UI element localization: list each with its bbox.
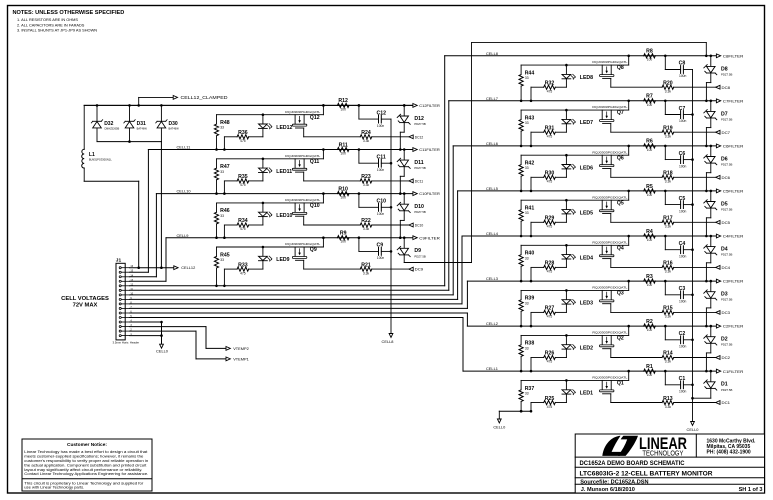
svg-text:SH 1 of 3: SH 1 of 3	[739, 487, 763, 493]
svg-text:R36: R36	[238, 130, 248, 136]
svg-text:C3: C3	[679, 286, 686, 292]
svg-text:R9: R9	[340, 231, 347, 237]
svg-text:BAT46W: BAT46W	[137, 127, 148, 131]
svg-text:100n: 100n	[679, 390, 687, 394]
svg-text:R31: R31	[545, 125, 555, 131]
resistor R11 100	[337, 142, 349, 155]
resistor R24 3.3k	[304, 130, 409, 143]
wire CELL12_CLAMPED rail	[84, 104, 413, 106]
svg-text:100: 100	[647, 373, 653, 377]
svg-text:D1: D1	[721, 382, 728, 388]
node CELL10 bus	[156, 189, 413, 194]
svg-text:3.3k: 3.3k	[363, 227, 370, 231]
svg-text:Q3: Q3	[617, 290, 624, 296]
node CELL9 bus	[166, 233, 413, 238]
wire zener D2 to next filter node	[705, 344, 711, 373]
capacitor C10 100n	[358, 192, 391, 216]
svg-text:This circuit is proprietary to: This circuit is proprietary to Linear Te…	[24, 481, 144, 485]
node CELL8 down flag	[382, 334, 394, 344]
svg-text:LED4: LED4	[580, 255, 593, 261]
wire pin2 to VTEMP1	[130, 331, 249, 362]
node DC8 flag	[716, 85, 730, 90]
zener D6 PDZ7.5B	[704, 145, 733, 167]
svg-text:R30: R30	[545, 171, 555, 177]
wire pin14 to CELL10 bus	[130, 194, 157, 277]
resistor R31 475	[530, 125, 567, 147]
wire source line row 1	[521, 370, 630, 381]
svg-text:RQJ0303PGDGQATL: RQJ0303PGDGQATL	[285, 110, 321, 114]
resistor R19 3.3k	[611, 125, 716, 138]
svg-text:PDZ7.5B: PDZ7.5B	[414, 254, 425, 258]
svg-text:RQJ0303PGDGQATL: RQJ0303PGDGQATL	[285, 154, 321, 158]
capacitor C4 100n	[664, 235, 693, 259]
svg-text:D6: D6	[721, 156, 728, 162]
wire source line row 4	[521, 235, 630, 246]
resistor R14 3.3k	[611, 351, 716, 364]
node C6FILTER flag	[716, 144, 743, 149]
resistor R21 3.3k	[304, 262, 409, 275]
svg-text:CELL VOLTAGES: CELL VOLTAGES	[61, 296, 109, 302]
transistor Q9 RQJ0303PGDGQATL	[285, 242, 321, 269]
svg-text:DC12: DC12	[415, 135, 424, 139]
resistor R18 3.3k	[611, 171, 716, 184]
svg-text:CELL3: CELL3	[486, 276, 498, 281]
svg-text:100n: 100n	[377, 256, 385, 260]
svg-text:C10FILTER: C10FILTER	[419, 192, 440, 196]
svg-text:100: 100	[340, 240, 346, 244]
capacitor C6 100n	[664, 145, 693, 169]
svg-text:C1FILTER: C1FILTER	[723, 370, 744, 374]
svg-text:475: 475	[547, 270, 553, 274]
resistor R22 3.3k	[304, 218, 409, 231]
LED LED10	[259, 202, 293, 225]
svg-text:R26: R26	[545, 351, 555, 357]
title block address	[707, 438, 757, 455]
resistor R43 33	[519, 110, 534, 147]
transistor Q6 RQJ0303PGDGQATL	[592, 150, 628, 177]
svg-text:33: 33	[220, 170, 224, 174]
LED LED2	[562, 334, 593, 357]
svg-text:VTEMP1: VTEMP1	[233, 357, 249, 362]
svg-text:PDZ7.5B: PDZ7.5B	[721, 253, 732, 257]
svg-text:C6FILTER: C6FILTER	[723, 145, 744, 149]
svg-text:Sourcefile: DC1652A.DSN: Sourcefile: DC1652A.DSN	[580, 479, 648, 485]
svg-text:C5: C5	[679, 196, 686, 202]
transistor Q5 RQJ0303PGDGQATL	[592, 195, 628, 222]
svg-text:100n: 100n	[679, 299, 687, 303]
svg-text:DC4: DC4	[722, 266, 731, 270]
node C10FILTER flag	[413, 192, 440, 197]
capacitor C3 100n	[664, 280, 693, 304]
svg-text:D3: D3	[721, 292, 728, 298]
zener D5 PDZ7.5B	[704, 190, 733, 212]
node DC3 flag	[716, 311, 730, 316]
svg-text:C8FILTER: C8FILTER	[723, 54, 744, 58]
svg-text:475: 475	[240, 139, 246, 143]
svg-text:J1: J1	[116, 258, 122, 264]
svg-text:D4: D4	[721, 247, 728, 253]
svg-text:3.3k: 3.3k	[665, 360, 672, 364]
resistor R45 33	[214, 247, 229, 287]
wire zener D5 to next filter node	[705, 208, 711, 237]
wire pin1 CELL0 flag	[130, 322, 169, 354]
transistor Q1 RQJ0303PGDGQATL	[592, 376, 628, 403]
svg-text:DC7: DC7	[722, 131, 731, 135]
wire source line row 2	[521, 325, 630, 336]
svg-text:CELL6: CELL6	[486, 141, 498, 146]
svg-text:CELL4: CELL4	[486, 231, 499, 236]
wire D30 bottom to CELL12 net	[160, 142, 163, 269]
inductor L1	[82, 105, 113, 181]
zener D12 PDZ7.5B	[397, 104, 426, 126]
resistor R32 475	[530, 80, 567, 102]
LED LED6	[562, 154, 593, 177]
svg-text:LED8: LED8	[580, 75, 593, 81]
svg-text:100n: 100n	[377, 168, 385, 172]
resistor R25 475	[530, 396, 567, 413]
svg-text:R17: R17	[663, 216, 673, 222]
svg-text:33: 33	[525, 346, 529, 350]
svg-text:100n: 100n	[377, 212, 385, 216]
svg-text:100: 100	[647, 103, 653, 107]
svg-text:100: 100	[340, 107, 346, 111]
svg-text:3.3k: 3.3k	[363, 139, 370, 143]
node DC10 flag	[409, 223, 423, 228]
resistor R1 100	[644, 364, 656, 377]
svg-text:RQJ0303PGDGQATL: RQJ0303PGDGQATL	[592, 150, 628, 154]
resistor R38 33	[519, 335, 534, 372]
capacitor C2 100n	[664, 325, 693, 349]
node CELL6 bus	[453, 141, 716, 146]
svg-text:D30: D30	[169, 121, 178, 127]
transistor Q3 RQJ0303PGDGQATL	[592, 285, 628, 312]
svg-text:R24: R24	[361, 130, 371, 136]
svg-text:33: 33	[525, 76, 529, 80]
svg-text:3.3k: 3.3k	[665, 270, 672, 274]
wire pin16 CELL12 net	[130, 265, 196, 270]
svg-text:100n: 100n	[679, 345, 687, 349]
wire zener D12 to next filter node	[399, 123, 404, 151]
node C5FILTER flag	[716, 189, 743, 194]
title block sourcefile	[580, 479, 648, 485]
svg-text:475: 475	[547, 360, 553, 364]
svg-text:C10: C10	[377, 199, 387, 205]
svg-text:D2: D2	[721, 337, 728, 343]
svg-text:TECHNOLOGY: TECHNOLOGY	[642, 448, 683, 457]
svg-text:R28: R28	[545, 261, 555, 267]
svg-text:D12: D12	[414, 116, 424, 122]
svg-text:CELL11: CELL11	[177, 145, 191, 150]
resistor R47 33	[214, 159, 229, 195]
svg-text:RQJ0303PGDGQATL: RQJ0303PGDGQATL	[592, 376, 628, 380]
svg-text:R33: R33	[238, 262, 248, 268]
svg-text:D8: D8	[721, 66, 728, 72]
svg-text:DC11: DC11	[415, 180, 424, 184]
svg-text:CELL12: CELL12	[181, 265, 195, 270]
wire zener D1 to CELL0 rail	[691, 388, 711, 399]
node junctions on clamped rail	[96, 104, 406, 107]
LED LED9	[259, 246, 290, 269]
zener D4 PDZ7.5B	[704, 235, 733, 257]
svg-text:DC6: DC6	[722, 176, 731, 180]
svg-text:R29: R29	[545, 216, 555, 222]
svg-text:R3: R3	[646, 274, 653, 280]
connector J1	[113, 258, 140, 345]
wire CELL0 cap rail	[691, 70, 694, 422]
wire source line row 11	[217, 148, 325, 159]
svg-text:LED11: LED11	[276, 169, 292, 175]
svg-text:R27: R27	[545, 306, 555, 312]
svg-text:Q10: Q10	[310, 203, 320, 209]
svg-text:C11FILTER: C11FILTER	[419, 148, 440, 152]
zener D9 PDZ7.5B	[397, 236, 426, 258]
wire pin12 CELL8 long bus	[130, 56, 445, 286]
svg-text:D5: D5	[721, 201, 728, 207]
svg-text:PDZ7.5B: PDZ7.5B	[414, 166, 425, 170]
svg-text:NOTES: UNLESS OTHERWISE SPECI: NOTES: UNLESS OTHERWISE SPECIFIED	[13, 10, 125, 16]
svg-text:LED5: LED5	[580, 210, 593, 216]
resistor R7 100	[644, 94, 656, 107]
svg-text:RQJ0303PGDGQATL: RQJ0303PGDGQATL	[592, 195, 628, 199]
resistor R41 33	[519, 200, 534, 237]
title block author date	[581, 487, 763, 493]
wire zener D7 to next filter node	[705, 118, 711, 147]
node DC4 flag	[716, 266, 730, 271]
resistor R3 100	[644, 274, 656, 287]
wire source line row 6	[521, 145, 630, 156]
svg-text:Q5: Q5	[617, 200, 624, 206]
svg-text:DC10: DC10	[415, 224, 424, 228]
resistor R10 100	[337, 186, 349, 199]
wire CELL8 cap rail	[390, 119, 393, 333]
svg-text:LED3: LED3	[580, 300, 593, 306]
node C1FILTER flag	[716, 369, 743, 374]
node CELL7 bus	[449, 96, 717, 101]
svg-text:33: 33	[220, 214, 224, 218]
svg-text:R5: R5	[646, 184, 653, 190]
wire diode bottom rail	[97, 140, 161, 143]
svg-text:DC1652A DEMO BOARD SCHEMATIC: DC1652A DEMO BOARD SCHEMATIC	[580, 460, 685, 467]
svg-text:BAT46W: BAT46W	[169, 127, 180, 131]
node CELL0 down flag right	[687, 422, 700, 433]
wire pin13 to CELL9 bus	[130, 238, 166, 282]
svg-text:RQJ0303PGDGQATL: RQJ0303PGDGQATL	[285, 198, 321, 202]
svg-text:D9: D9	[414, 248, 421, 254]
transistor Q2 RQJ0303PGDGQATL	[592, 331, 628, 358]
wire pin10 to CELL6	[130, 146, 454, 295]
svg-text:R23: R23	[361, 174, 371, 180]
svg-text:R13: R13	[663, 396, 673, 402]
diode D31	[124, 105, 148, 141]
node DC6 flag	[716, 175, 730, 180]
svg-text:475: 475	[240, 271, 246, 275]
svg-text:use with Linear Technology par: use with Linear Technology parts.	[24, 486, 84, 490]
svg-text:LED9: LED9	[276, 257, 289, 263]
svg-text:33: 33	[525, 301, 529, 305]
svg-text:DC3: DC3	[722, 311, 731, 315]
svg-text:33: 33	[220, 126, 224, 130]
svg-text:C4FILTER: C4FILTER	[723, 235, 744, 239]
wire pin15 to CELL11 bus	[130, 150, 149, 273]
svg-text:C1: C1	[679, 376, 686, 382]
node C12FILTER flag	[413, 104, 440, 109]
wire zener D11 to next filter node	[399, 167, 404, 195]
svg-text:DC2: DC2	[722, 356, 731, 360]
node CELL5 bus	[458, 186, 717, 191]
wire L1 bottom to pin16	[84, 181, 140, 269]
wire pin5 to CELL1	[130, 318, 463, 372]
svg-text:CELL1: CELL1	[486, 366, 498, 371]
svg-text:PDZ7.5B: PDZ7.5B	[721, 72, 732, 76]
transistor Q11 RQJ0303PGDGQATL	[285, 154, 321, 181]
svg-text:C3FILTER: C3FILTER	[723, 280, 744, 284]
resistor R46 33	[214, 203, 229, 239]
node C4FILTER flag	[716, 234, 743, 239]
svg-text:CELL0: CELL0	[156, 349, 169, 354]
svg-text:PDZ7.5B: PDZ7.5B	[721, 388, 732, 392]
svg-text:C5FILTER: C5FILTER	[723, 190, 744, 194]
svg-text:PDZ7.5B: PDZ7.5B	[721, 163, 732, 167]
resistor R28 475	[530, 261, 567, 283]
wire pin7 to CELL3	[130, 281, 468, 308]
wire pin9 to CELL5	[130, 191, 458, 300]
svg-text:RQJ0303PGDGQATL: RQJ0303PGDGQATL	[592, 60, 628, 64]
svg-text:100n: 100n	[679, 119, 687, 123]
svg-text:Q8: Q8	[617, 65, 624, 71]
transistor Q12 RQJ0303PGDGQATL	[285, 110, 321, 137]
LED LED11	[259, 158, 293, 181]
wire source line row 9	[217, 236, 325, 247]
zener D8 PDZ7.5B	[704, 55, 733, 77]
node C3FILTER flag	[716, 279, 743, 284]
svg-text:LTC6803IG-2 12-CELL BATTERY M: LTC6803IG-2 12-CELL BATTERY MONITOR	[580, 470, 713, 477]
svg-text:LED6: LED6	[580, 165, 593, 171]
svg-text:33: 33	[525, 166, 529, 170]
svg-text:R8: R8	[646, 49, 653, 55]
node C9FILTER flag	[413, 236, 440, 241]
svg-text:100n: 100n	[377, 124, 385, 128]
svg-text:Q7: Q7	[617, 110, 624, 116]
svg-text:D32: D32	[104, 121, 113, 127]
wire zener D8 to next filter node	[705, 73, 711, 102]
svg-text:LED7: LED7	[580, 120, 593, 126]
svg-text:VTEMP2: VTEMP2	[233, 346, 249, 351]
svg-text:Q11: Q11	[310, 159, 320, 165]
svg-text:3.3k: 3.3k	[665, 180, 672, 184]
svg-text:100: 100	[647, 283, 653, 287]
resistor R39 33	[519, 290, 534, 327]
node DC9 flag	[409, 267, 423, 272]
resistor R17 3.3k	[611, 216, 716, 229]
svg-text:475: 475	[240, 183, 246, 187]
svg-text:R16: R16	[663, 261, 673, 267]
capacitor C9 100n	[358, 236, 391, 260]
LED LED5	[562, 199, 593, 222]
svg-text:PDZ7.5B: PDZ7.5B	[414, 210, 425, 214]
svg-text:475: 475	[240, 227, 246, 231]
svg-text:100: 100	[340, 151, 346, 155]
transistor Q10 RQJ0303PGDGQATL	[285, 198, 321, 225]
svg-text:475: 475	[547, 134, 553, 138]
svg-text:R22: R22	[361, 218, 371, 224]
wire source line row 3	[521, 280, 630, 291]
svg-text:C12: C12	[377, 110, 387, 116]
zener D1 PDZ7.5B	[704, 370, 733, 392]
svg-text:100: 100	[647, 328, 653, 332]
svg-text:R32: R32	[545, 80, 555, 86]
svg-text:R7: R7	[646, 94, 653, 100]
node DC2 flag	[716, 356, 730, 361]
svg-text:CELL8: CELL8	[486, 51, 498, 56]
svg-text:100n: 100n	[679, 254, 687, 258]
resistor R36 475	[223, 130, 263, 151]
svg-text:33: 33	[525, 391, 529, 395]
svg-text:D10: D10	[414, 204, 424, 210]
Linear Technology logo	[602, 434, 687, 457]
resistor R44 33	[519, 65, 534, 102]
svg-text:Q4: Q4	[617, 245, 624, 251]
svg-text:R25: R25	[545, 396, 555, 402]
svg-text:RQJ0303PGDGQATL: RQJ0303PGDGQATL	[285, 242, 321, 246]
svg-text:R15: R15	[663, 306, 673, 312]
svg-text:100: 100	[647, 58, 653, 62]
svg-text:PDZ7.5B: PDZ7.5B	[721, 343, 732, 347]
svg-text:3.3k: 3.3k	[665, 405, 672, 409]
zener D10 PDZ7.5B	[397, 192, 426, 214]
node CELL8 bus	[445, 51, 717, 56]
wire pin11 to CELL7	[130, 101, 449, 290]
svg-text:DC9: DC9	[415, 268, 424, 272]
node CELL2 bus	[467, 321, 716, 326]
resistor R2 100	[644, 319, 656, 332]
svg-text:3.3k: 3.3k	[665, 89, 672, 93]
svg-text:100: 100	[647, 193, 653, 197]
wire zener D9 long route to C8FILTER	[404, 43, 707, 263]
resistor R30 475	[530, 171, 567, 193]
wire row1 bottom rail	[499, 410, 531, 413]
wire zener D3 to next filter node	[705, 298, 711, 327]
node CELL3 bus	[467, 276, 716, 281]
transistor Q4 RQJ0303PGDGQATL	[592, 240, 628, 267]
title block line2	[580, 470, 713, 477]
node C8FILTER flag	[716, 54, 743, 59]
svg-text:DC1: DC1	[722, 401, 731, 405]
resistor R13 3.3k	[611, 396, 716, 409]
svg-text:100n: 100n	[679, 74, 687, 78]
transistor Q8 RQJ0303PGDGQATL	[592, 60, 628, 87]
node DC12 flag	[409, 135, 423, 140]
zener D2 PDZ7.5B	[704, 325, 733, 347]
svg-text:C9: C9	[377, 243, 384, 249]
wire source line row 10	[217, 192, 325, 203]
notes text	[13, 10, 125, 33]
resistor R40 33	[519, 245, 534, 282]
resistor R37 33	[519, 380, 534, 412]
svg-text:CELL7: CELL7	[486, 96, 498, 101]
svg-text:LED2: LED2	[580, 346, 593, 352]
svg-text:the actual application. Compo: the actual application. Component substi…	[24, 463, 146, 467]
svg-text:100: 100	[647, 238, 653, 242]
resistor R4 100	[644, 229, 656, 242]
svg-text:R14: R14	[663, 351, 673, 357]
svg-text:C9FILTER: C9FILTER	[419, 236, 440, 240]
svg-text:DC8: DC8	[722, 86, 731, 90]
title block	[575, 434, 764, 493]
svg-text:R2: R2	[646, 319, 653, 325]
resistor R8 100	[644, 49, 656, 62]
resistor R42 33	[519, 155, 534, 192]
svg-text:BLM31PG330SN1L: BLM31PG330SN1L	[89, 157, 112, 161]
